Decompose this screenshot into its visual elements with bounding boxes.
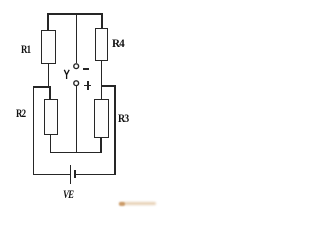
- watermark smudge bottom right: [119, 202, 156, 205]
- wire: right rail down to battery: [114, 85, 115, 175]
- wire: R4 top lead: [101, 13, 102, 28]
- label R2: [16, 107, 25, 119]
- wire: R4 bottom to R3 top: [101, 61, 102, 99]
- wire: left rail down to battery: [33, 86, 34, 175]
- battery VE short plate (-): [74, 170, 76, 178]
- terminal circle: voltmeter positive: [73, 80, 81, 88]
- wire: R3 bottom lead: [100, 138, 101, 153]
- wire: R2 bottom lead: [50, 135, 51, 154]
- wire: from voltmeter + terminal down to bottom node: [76, 86, 77, 153]
- wire: R1 top lead: [47, 13, 48, 30]
- label minus sign: [83, 68, 89, 70]
- terminal circle: voltmeter negative: [73, 63, 81, 71]
- wire: bottom right (battery to right rail): [76, 174, 116, 176]
- resistor R1: [41, 30, 56, 64]
- label R3: [118, 112, 128, 124]
- resistor R4: [95, 28, 108, 61]
- resistor R3: [94, 99, 109, 138]
- wire: R2 top lead: [49, 87, 50, 99]
- wire: bottom left (battery to left rail): [33, 174, 71, 176]
- label R4: [112, 37, 124, 49]
- wire: R1 bottom lead: [48, 64, 49, 87]
- label plus sign: [84, 85, 91, 87]
- wire: bottom node horizontal (R2-R3 junction, node B): [50, 152, 102, 154]
- wire: right junction horizontal (node C: R4-R3-battery): [101, 85, 116, 86]
- label R1: [21, 43, 30, 55]
- label V (voltmeter): [63, 69, 71, 80]
- resistor R2: [44, 99, 59, 135]
- wire: top node horizontal (R1/R4 junction): [47, 13, 102, 14]
- label VE: [63, 188, 73, 200]
- wire: left junction horizontal (node A: R1-R2-battery): [33, 86, 51, 87]
- battery VE long plate (+): [70, 165, 71, 183]
- wire: middle tap from top node down to voltmeter - terminal: [76, 13, 77, 63]
